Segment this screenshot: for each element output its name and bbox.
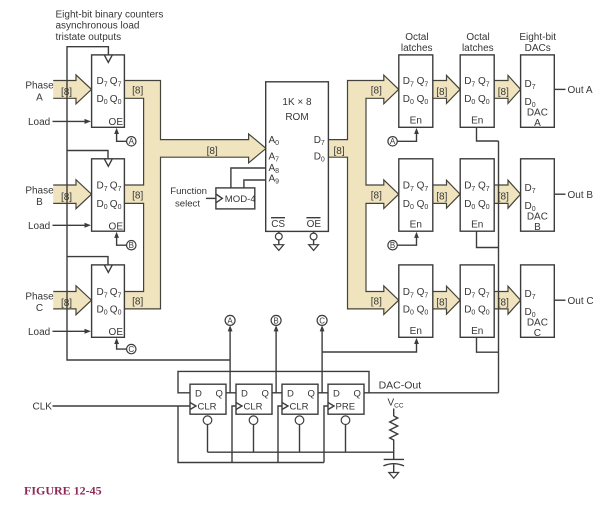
- wire CLK input line: [53, 405, 191, 407]
- svg-text:Q: Q: [216, 388, 223, 399]
- power Vcc: [388, 398, 404, 417]
- svg-text:OE: OE: [109, 117, 124, 128]
- counter phase B: [92, 159, 125, 233]
- flip-flop FF3: [282, 384, 318, 452]
- svg-text:[8]: [8]: [498, 192, 509, 203]
- svg-text:Eight-bit binary counters: Eight-bit binary counters: [56, 10, 164, 21]
- svg-text:Phase: Phase: [25, 291, 54, 302]
- label phase C: [25, 291, 54, 314]
- svg-text:B: B: [390, 241, 395, 250]
- wire counter C clock tap: [67, 257, 108, 265]
- svg-text:DAC: DAC: [527, 108, 548, 119]
- node C at counter C OE: [114, 338, 136, 354]
- svg-text:Phase: Phase: [25, 81, 54, 92]
- bus counters-to-ROM address bus with arrow into ROM: [124, 81, 266, 309]
- wire MOD-4 output A8: [231, 168, 266, 188]
- flip-flop FF1: [190, 384, 226, 452]
- ground arrow below ROM OE: [309, 231, 319, 250]
- svg-text:En: En: [410, 220, 422, 231]
- bus [8] latch1-to-latch2 arrow row A: [433, 75, 460, 103]
- svg-text:OE: OE: [109, 221, 124, 232]
- ROM 1K x 8: [266, 82, 329, 232]
- svg-text:C: C: [534, 328, 541, 339]
- svg-text:C: C: [36, 303, 43, 314]
- svg-text:[8]: [8]: [498, 298, 509, 309]
- bus [8] latch2-to-DAC arrow row A: [494, 75, 520, 103]
- wire latch2 row B En to DAC-Out line: [477, 231, 499, 247]
- label phase B: [25, 185, 54, 208]
- wire FF3 Q to FF4 D: [318, 392, 328, 394]
- resistor R: [390, 416, 398, 444]
- label function select: [170, 186, 207, 209]
- svg-text:MOD-4: MOD-4: [225, 194, 257, 205]
- ground below capacitor: [389, 473, 399, 479]
- svg-text:Load: Load: [28, 221, 50, 232]
- node B at counter B OE: [114, 232, 136, 250]
- svg-text:Q: Q: [354, 388, 361, 399]
- wire MOD-4 output A9: [244, 180, 266, 188]
- wire CLK riser FF4: [324, 406, 328, 463]
- svg-text:CLR: CLR: [290, 402, 309, 413]
- svg-text:[8]: [8]: [498, 87, 509, 98]
- svg-text:B: B: [273, 316, 278, 325]
- svg-text:CLR: CLR: [244, 402, 263, 413]
- octal latch 2 row C: [460, 265, 494, 337]
- svg-text:[8]: [8]: [371, 86, 382, 97]
- wire ring feedback FF4 Q to FF1 D: [178, 371, 369, 392]
- svg-text:DAC-Out: DAC-Out: [379, 380, 422, 392]
- wire load B with arrowhead: [53, 224, 88, 226]
- octal latch 2 row A: [460, 55, 494, 127]
- svg-text:A: A: [129, 137, 135, 146]
- svg-text:A: A: [227, 316, 233, 325]
- node A tap above FF: [225, 315, 235, 392]
- svg-text:latches: latches: [401, 43, 433, 54]
- label octal latches 1: [401, 32, 433, 54]
- svg-text:DAC: DAC: [527, 211, 548, 222]
- svg-text:[8]: [8]: [207, 146, 218, 157]
- svg-text:D: D: [333, 388, 340, 399]
- svg-text:latches: latches: [462, 43, 494, 54]
- svg-text:Load: Load: [28, 327, 50, 338]
- wire FF2 Q to FF3 D: [272, 392, 282, 394]
- svg-text:[8]: [8]: [334, 146, 345, 157]
- svg-text:C: C: [319, 316, 325, 325]
- label top annotation: [56, 10, 164, 43]
- svg-text:Out B: Out B: [568, 190, 594, 201]
- svg-text:[8]: [8]: [132, 296, 143, 307]
- ground arrow below ROM CS: [274, 231, 284, 250]
- svg-text:Octal: Octal: [466, 32, 489, 43]
- svg-text:[8]: [8]: [132, 86, 143, 97]
- wire Out C: [554, 299, 565, 301]
- svg-text:ROM: ROM: [285, 112, 308, 123]
- svg-text:Out A: Out A: [568, 85, 593, 96]
- wire Out B: [554, 193, 565, 195]
- svg-text:Load: Load: [28, 117, 50, 128]
- wire resistor to capacitor: [393, 444, 395, 459]
- svg-text:A: A: [390, 137, 396, 146]
- svg-text:CS: CS: [271, 219, 285, 230]
- wire FF1 Q to FF2 D: [226, 392, 236, 394]
- svg-text:Phase: Phase: [25, 185, 54, 196]
- DAC A: [521, 55, 555, 129]
- svg-text:OE: OE: [109, 327, 124, 338]
- svg-text:[8]: [8]: [61, 87, 72, 98]
- wire DAC-Out vertical distribution line: [498, 141, 500, 393]
- wire CLK bottom distribution: [178, 406, 324, 463]
- counter phase C: [92, 265, 125, 338]
- flip-flop FF4: [328, 384, 364, 452]
- svg-text:Out C: Out C: [568, 296, 594, 307]
- node A at latch row A En: [388, 128, 419, 146]
- svg-text:Function: Function: [170, 186, 207, 197]
- wire CLR/PRE reset line: [208, 451, 394, 453]
- svg-text:C: C: [128, 345, 134, 354]
- wire latch2 row A En to DAC-Out line: [477, 127, 499, 141]
- svg-text:En: En: [471, 220, 483, 231]
- counter phase A: [92, 55, 125, 128]
- svg-text:Eight-bit: Eight-bit: [519, 32, 556, 43]
- svg-text:A: A: [534, 118, 541, 129]
- bus [8] latch1-to-latch2 arrow row C: [433, 286, 460, 314]
- svg-text:[8]: [8]: [61, 192, 72, 203]
- DAC B: [521, 159, 555, 233]
- svg-text:B: B: [534, 222, 541, 233]
- capacitor C: [383, 459, 404, 472]
- svg-text:CLK: CLK: [33, 401, 53, 412]
- svg-text:D: D: [241, 388, 248, 399]
- node C tap above FF: [317, 315, 327, 392]
- node B tap above FF: [271, 315, 281, 392]
- svg-text:[8]: [8]: [436, 87, 447, 98]
- MOD-4 function select block: [216, 188, 256, 209]
- wire CLK riser FF3: [278, 406, 282, 463]
- bus [8] phase A input arrow: [53, 75, 91, 104]
- svg-text:OE: OE: [307, 219, 322, 230]
- label octal latches 2: [462, 32, 494, 54]
- svg-text:En: En: [410, 326, 422, 337]
- svg-text:[8]: [8]: [436, 192, 447, 203]
- svg-text:Q: Q: [308, 388, 315, 399]
- octal latch 2 row B: [460, 159, 494, 231]
- bus ROM-data-to-latches bus with three arrows: [328, 75, 398, 314]
- svg-text:B: B: [129, 241, 134, 250]
- node B at latch row B En: [388, 232, 419, 250]
- wire DAC-Out horizontal line from FF4 Q: [364, 392, 499, 394]
- bus [8] latch2-to-DAC arrow row C: [494, 286, 520, 314]
- octal latch 1 row A: [399, 55, 433, 127]
- svg-text:Octal: Octal: [405, 32, 428, 43]
- svg-text:Q: Q: [262, 388, 269, 399]
- label phase A: [25, 81, 54, 104]
- bus [8] phase B input arrow: [53, 180, 91, 209]
- svg-text:D: D: [195, 388, 202, 399]
- svg-text:tristate outputs: tristate outputs: [56, 32, 122, 43]
- wire latch2 row C En to DAC-Out line: [477, 337, 499, 352]
- svg-text:DAC: DAC: [527, 318, 548, 329]
- svg-text:En: En: [471, 326, 483, 337]
- svg-text:[8]: [8]: [371, 296, 382, 307]
- bus [8] phase C input arrow: [53, 286, 91, 315]
- svg-text:En: En: [471, 116, 483, 127]
- node A at counter A OE: [114, 128, 136, 146]
- wire Out A: [554, 88, 565, 90]
- label eight-bit DACs: [519, 32, 556, 54]
- bus [8] latch2-to-DAC arrow row B: [494, 180, 520, 208]
- svg-text:En: En: [410, 116, 422, 127]
- svg-text:asynchronous load: asynchronous load: [56, 21, 140, 32]
- svg-text:[8]: [8]: [436, 298, 447, 309]
- wire counters clock line from top jog down to FF tap: [67, 47, 230, 360]
- svg-text:[8]: [8]: [132, 190, 143, 201]
- bus [8] latch1-to-latch2 arrow row B: [433, 180, 460, 208]
- wire C tap to latch row C En: [322, 338, 419, 352]
- wire load C with arrowhead: [53, 330, 88, 332]
- svg-text:D: D: [287, 388, 294, 399]
- svg-text:A: A: [36, 92, 43, 103]
- wire load A with arrowhead: [53, 120, 88, 122]
- svg-text:FIGURE 12-45: FIGURE 12-45: [24, 484, 102, 498]
- DAC C: [521, 265, 555, 339]
- svg-text:PRE: PRE: [336, 402, 356, 413]
- svg-text:B: B: [36, 197, 43, 208]
- wire function select input: [206, 197, 216, 199]
- svg-text:1K × 8: 1K × 8: [282, 97, 312, 108]
- svg-text:CLR: CLR: [198, 402, 217, 413]
- octal latch 1 row B: [399, 159, 433, 231]
- octal latch 1 row C: [399, 265, 433, 337]
- svg-text:select: select: [175, 199, 200, 210]
- wire CLK riser FF2: [232, 406, 236, 463]
- svg-text:[8]: [8]: [61, 298, 72, 309]
- svg-text:[8]: [8]: [371, 190, 382, 201]
- wire counter B clock tap: [67, 151, 108, 159]
- svg-text:DACs: DACs: [525, 43, 551, 54]
- flip-flop FF2: [236, 384, 272, 452]
